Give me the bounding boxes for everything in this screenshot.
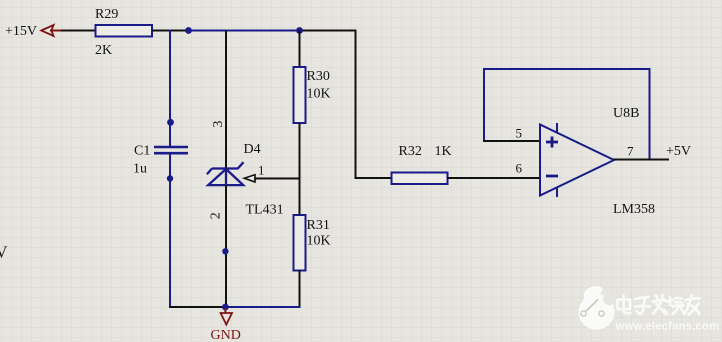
wire bottom navy segment [225,306,301,308]
op-amp minus input [546,175,558,178]
node dot on anode lead [222,248,228,254]
resistor R30 [294,67,306,123]
node dot GND junction [222,304,229,311]
svg-text:GND: GND [211,328,241,342]
svg-text:10K: 10K [307,233,331,248]
svg-text:R29: R29 [95,7,118,22]
wire top navy segment [188,30,301,32]
op-amp plus input [546,137,558,148]
wire output pin 7 [613,159,669,161]
svg-text:TL431: TL431 [246,202,284,217]
wire R30 top lead [299,31,301,68]
resistor R31 [294,215,306,271]
ground stub [224,308,226,313]
svg-text:R32: R32 [399,144,422,159]
svg-text:1: 1 [258,163,265,178]
wire R31 bottom lead [299,271,301,309]
watermark logo circle [579,286,616,330]
svg-text:1u: 1u [133,161,147,176]
node dot above C1 [167,119,174,126]
svg-text:1K: 1K [435,144,452,159]
resistor R32 [392,173,448,185]
svg-text:D4: D4 [244,142,261,157]
wire R29 to junction [152,30,189,32]
wire ref pin to divider [254,178,301,180]
svg-text:+5V: +5V [666,144,691,159]
ground symbol [221,313,232,325]
wire TL431 anode lead (pin 2) [225,185,227,308]
watermark chinese characters 电子发烧友 (stroke approximation) [618,295,701,315]
op-amp U8B triangle [540,125,614,196]
svg-text:+15V: +15V [5,24,37,39]
svg-text:10K: 10K [307,86,331,101]
wire top node down to R32 [356,30,393,179]
capacitor C1 [154,146,188,149]
wire top black segment [300,30,357,32]
wire pin 5 [483,140,539,142]
svg-text:R30: R30 [307,69,330,84]
node dot below C1 [167,175,173,181]
wire between R30 and R31 [299,123,301,216]
power port +15V arrow [41,25,53,36]
node junction dot A [185,27,192,34]
pin 1 arrowhead of TL431 [244,175,255,182]
op-amp power stub top [556,123,558,133]
wire +15V lead (maroon stub) [50,30,63,32]
svg-text:2K: 2K [95,43,112,58]
svg-text:3: 3 [211,121,226,128]
svg-text:2: 2 [208,212,223,219]
node junction dot B [296,27,303,34]
svg-text:LM358: LM358 [613,202,655,217]
svg-text:R31: R31 [307,218,330,233]
svg-text:C1: C1 [134,143,150,158]
wire C1 top lead [169,30,171,147]
wire bottom black segment [169,306,226,308]
svg-text:U8B: U8B [613,106,639,121]
svg-text:7: 7 [627,144,634,159]
diode D4 TL431 symbol [207,162,244,185]
resistor R29 [96,25,153,37]
svg-text:www.elecfans.com: www.elecfans.com [615,321,720,333]
wire C1 bottom lead [169,155,171,309]
wire +15V to R29 [61,30,96,32]
wire TL431 cathode lead (pin 3) [225,31,227,168]
wire R32 to pin 6 [447,177,539,179]
wire feedback loop [484,69,650,160]
svg-text:6: 6 [516,161,523,176]
svg-text:5: 5 [516,126,523,141]
op-amp power stub bottom [556,188,558,198]
svg-text:V: V [0,243,8,262]
